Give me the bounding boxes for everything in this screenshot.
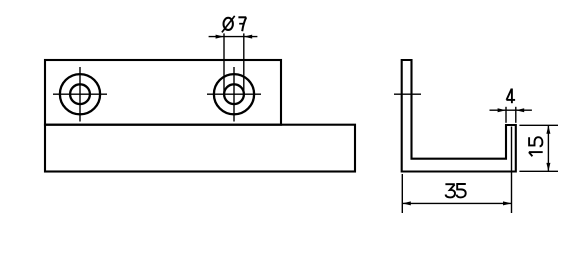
dimension 35 extension lines xyxy=(402,127,511,214)
front view: base plate outline xyxy=(45,125,355,172)
hole H2 inner circle xyxy=(224,84,244,104)
dimension 4 dimension line xyxy=(490,109,532,111)
dimension 15 dimension line xyxy=(547,125,549,171)
dimension 4 text "4" xyxy=(506,89,515,104)
hole H1 outer circle xyxy=(60,74,100,114)
dimension D7 text "Ø7" xyxy=(222,16,246,33)
dimension 15 arrowheads xyxy=(546,125,550,171)
dimension D7 dimension line xyxy=(209,36,258,38)
hole H1 centerlines xyxy=(53,67,107,122)
dimension 35 arrowheads xyxy=(402,201,511,205)
dimension 4 extension lines xyxy=(506,107,516,123)
dimension 35 text "35" xyxy=(445,184,465,197)
dimension D7 extension lines xyxy=(224,33,244,94)
side view hole centerline xyxy=(394,93,421,95)
hole H1 inner circle xyxy=(70,84,90,104)
hole H2 centerlines xyxy=(207,67,261,122)
side view profile outline xyxy=(402,60,516,172)
dimension 4 arrowheads xyxy=(498,108,525,112)
dimension 35 dimension line xyxy=(402,202,511,204)
front view: top plate outline xyxy=(45,60,281,125)
dimension 15 extension lines xyxy=(519,125,558,171)
dimension 15 text "15" rotated xyxy=(529,137,543,156)
hole H2 outer circle xyxy=(214,74,254,114)
dimension D7 arrowheads xyxy=(216,35,253,39)
